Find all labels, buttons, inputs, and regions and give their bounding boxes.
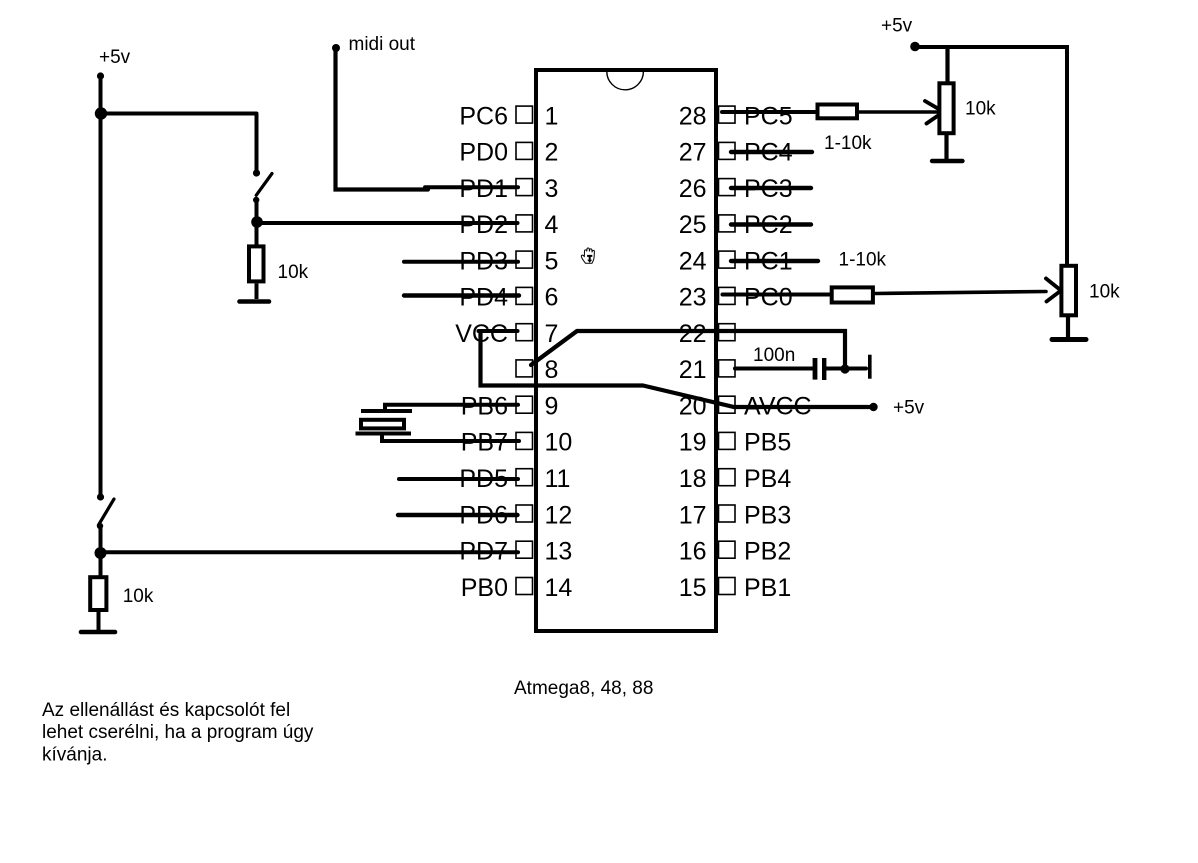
svg-text:8: 8 [545,356,559,384]
wire pin 23 PC0 to R4 [723,293,831,297]
svg-text:+5v: +5v [893,398,925,419]
wire stub pin 27 PC4 [731,150,812,154]
wire +5v left vertical rail [99,76,103,497]
resistor R1 10k body [249,246,264,281]
crystal X1 body [361,420,404,429]
svg-text:16: 16 [679,538,707,566]
pin 27 box [719,142,736,159]
pin 16 box [719,541,736,558]
svg-text:lehet cserélni, ha a program ú: lehet cserélni, ha a program úgy [42,722,314,743]
pin 9 box [516,396,533,413]
pin 12 box [516,505,533,522]
pin 28 box [719,106,736,123]
resistor R3 1-10k body [818,105,858,119]
node junction S1 / R1 / PD2 [251,216,263,228]
svg-text:Az ellenállást és kapcsolót fe: Az ellenállást és kapcsolót fel [42,700,290,721]
svg-text:12: 12 [545,501,573,529]
wire pin 21 to capacitor C1 [735,367,812,371]
svg-text:PB3: PB3 [744,501,791,529]
node S2 lower contact dot [97,523,103,529]
wire C1 to ground bar [826,367,866,371]
wire pin 9 PB6 to crystal [385,405,518,411]
node S1 upper contact dot [253,169,260,176]
IC U1 Atmega8 body [536,70,716,631]
pin 11 box [516,469,533,486]
ground bar below VR2 [1052,337,1086,342]
svg-text:1: 1 [545,102,559,130]
svg-text:11: 11 [545,465,571,493]
wire junction to switch S1 horizontal [101,112,257,116]
pin 15 box [719,578,736,595]
node junction S2 / R2 / PD7 [95,547,107,559]
svg-text:2: 2 [545,139,559,167]
wire R1 to ground [255,284,259,300]
wire VCC pin 7 stub [479,329,518,333]
svg-text:4: 4 [545,211,559,239]
svg-text:17: 17 [679,501,707,529]
wire VCC diagonal to AVCC pin 20 [643,386,871,408]
pin 10 box [516,432,533,449]
svg-text:21: 21 [679,356,707,384]
wire GND horizontal through pin 22 [577,331,845,369]
svg-text:15: 15 [679,574,707,602]
ground bar right of C1 [868,355,872,379]
svg-text:25: 25 [679,211,707,239]
wire switch S1 upper vertical [255,114,259,173]
switch S1 blade [256,174,272,196]
pin 6 box [516,287,533,304]
svg-text:22: 22 [679,320,707,348]
node +5v top left terminal dot [97,72,104,79]
wire stub pin 5 PD3 [404,260,518,264]
wire junction to pin 13 PD7 [101,550,519,554]
svg-text:PC0: PC0 [744,284,793,312]
svg-text:PB2: PB2 [744,538,791,566]
pin 1 box [516,106,533,123]
svg-text:+5v: +5v [881,16,913,37]
pin 3 box [516,179,533,196]
node midi out terminal dot [332,44,340,52]
wire junction to pin 4 PD2 [257,221,518,225]
svg-text:PB5: PB5 [744,429,791,457]
pin 25 box [719,215,736,232]
wire stub pin 11 PD5 [399,477,518,481]
svg-text:Atmega8, 48, 88: Atmega8, 48, 88 [514,678,653,699]
resistor R4 1-10k body [832,287,873,302]
wire VR1 bottom stub [944,135,948,159]
pin 17 box [719,505,736,522]
crystal X1 top plate [361,409,412,413]
wire stub pin 6 PD4 [404,293,519,297]
pin 2 box [516,142,533,159]
pin name labels right [744,102,812,601]
potentiometer VR1 body [939,83,953,133]
svg-text:PD2: PD2 [459,211,508,239]
svg-text:18: 18 [679,465,707,493]
capacitor C1 100n plates [813,358,827,380]
svg-text:PB1: PB1 [744,574,791,602]
node junction C1 / pin8 net [840,364,849,373]
svg-text:26: 26 [679,175,707,203]
mouse hand cursor artifact [581,248,594,263]
svg-text:PC6: PC6 [459,102,508,130]
pin numbers 28-15 [679,102,707,601]
note text bottom left [42,700,314,765]
svg-text:PB4: PB4 [744,465,791,493]
wire VCC down [481,331,644,386]
pin 13 box [516,541,533,558]
pin 4 box [516,215,533,232]
pin boxes left (pins 1-14) [516,106,533,594]
svg-text:midi out: midi out [349,34,416,55]
svg-text:10k: 10k [965,99,996,120]
svg-text:PC5: PC5 [744,102,793,130]
svg-text:13: 13 [545,538,573,566]
pin name labels left [455,102,508,601]
node S1 lower contact dot [253,197,259,203]
svg-text:PB0: PB0 [461,574,508,602]
svg-text:10: 10 [545,429,573,457]
wire VR2 bottom stub [1066,317,1070,337]
svg-text:1-10k: 1-10k [839,250,887,271]
crystal X1 bottom plate [356,432,412,436]
svg-text:kívánja.: kívánja. [42,744,107,765]
ground bar below R2 [81,630,115,635]
pin 18 box [719,469,736,486]
wire R3 to VR1 wiper [859,110,938,114]
ground bar below R1 [240,299,270,304]
ground bar below VR1 [932,159,963,163]
arrow wiper VR2 [1046,279,1061,302]
wire S2 lower vertical to junction [99,526,103,576]
wire midi out vertical [336,48,429,190]
pin boxes right (pins 28-15) [719,106,736,594]
svg-text:10k: 10k [123,586,154,607]
arrow wiper VR1 [925,101,944,124]
svg-text:10k: 10k [278,262,309,283]
svg-text:27: 27 [679,139,707,167]
pin 20 box [719,396,736,413]
node S2 upper contact dot [97,493,104,500]
switch S2 blade [99,499,115,525]
pin numbers 1-14 [545,102,573,601]
pin 26 box [719,179,736,196]
svg-text:28: 28 [679,102,707,130]
pin 24 box [719,251,736,268]
wire crystal to pin 10 PB7 [382,434,519,442]
pin 5 box [516,251,533,268]
svg-text:PD4: PD4 [459,284,508,312]
svg-text:PD0: PD0 [459,139,508,167]
svg-text:14: 14 [545,574,573,602]
svg-text:100n: 100n [753,345,795,366]
svg-text:+5v: +5v [99,47,131,68]
node junction left rail to S1 [95,107,107,119]
svg-text:3: 3 [545,175,559,203]
wire VR1 top stub [945,47,949,83]
wire stub pin 24 PC1 [731,259,818,263]
wire pin 8 GND diagonal [531,331,577,365]
wire stub pin 25 PC2 [731,222,811,226]
svg-text:10k: 10k [1089,282,1120,303]
wire R2 to ground [97,612,101,630]
svg-text:9: 9 [545,393,559,421]
node +5v top right terminal dot [910,42,920,52]
svg-text:6: 6 [545,284,559,312]
wire stub pin 26 PC3 [731,186,811,190]
pin 21 box [719,360,736,377]
potentiometer VR2 body [1061,266,1076,316]
pin 7 box [516,324,533,341]
svg-text:24: 24 [679,247,707,275]
resistor R2 10k body [90,577,106,610]
pin 14 box [516,578,533,595]
pin 23 box [719,287,736,304]
svg-text:5: 5 [545,247,559,275]
svg-text:19: 19 [679,429,707,457]
pin 22 box [719,324,736,341]
node AVCC +5v terminal dot [869,403,877,411]
wire S1 lower vertical to junction [255,200,259,246]
wire R4 to VR2 wiper [875,292,1046,294]
pin 19 box [719,432,736,449]
wire +5v top right to VR2 [915,47,1067,265]
wire pin 28 PC5 to R3 [722,110,816,114]
wire stub pin 12 PD6 [398,513,518,517]
svg-text:1-10k: 1-10k [824,133,872,154]
wire midi out to pin 3 PD1 [425,185,518,189]
svg-text:23: 23 [679,284,707,312]
pin 8 box [516,360,533,377]
